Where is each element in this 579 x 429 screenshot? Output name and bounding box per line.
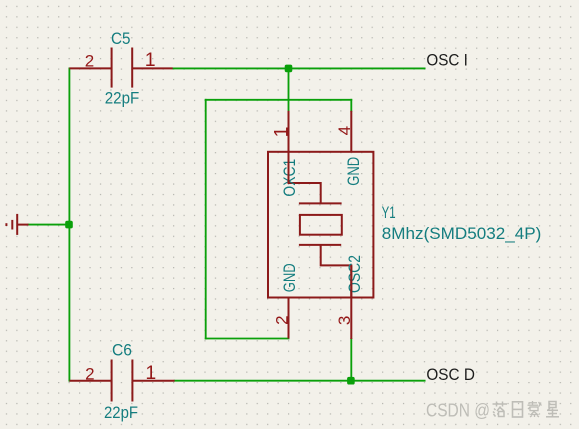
svg-text:2: 2 — [85, 52, 94, 71]
svg-text:OSC2: OSC2 — [345, 255, 364, 293]
svg-text:GND: GND — [280, 263, 299, 292]
svg-text:4: 4 — [335, 126, 354, 135]
svg-text:22pF: 22pF — [104, 403, 138, 422]
svg-text:GND: GND — [344, 157, 363, 186]
svg-text:2: 2 — [273, 315, 292, 324]
svg-text:C5: C5 — [111, 29, 131, 48]
svg-text:2: 2 — [85, 364, 94, 383]
svg-text:C6: C6 — [112, 340, 132, 359]
svg-text:OSC I: OSC I — [426, 51, 468, 70]
svg-text:22pF: 22pF — [105, 89, 140, 108]
svg-text:1: 1 — [145, 49, 156, 71]
svg-text:1: 1 — [271, 127, 293, 138]
svg-text:CSDN @: CSDN @ — [426, 400, 490, 420]
svg-text:8Mhz(SMD5032_4P): 8Mhz(SMD5032_4P) — [382, 224, 542, 243]
svg-text:Y1: Y1 — [382, 203, 396, 222]
svg-text:3: 3 — [335, 316, 354, 325]
svg-text:OSC D: OSC D — [426, 365, 475, 384]
svg-text:1: 1 — [145, 362, 156, 384]
